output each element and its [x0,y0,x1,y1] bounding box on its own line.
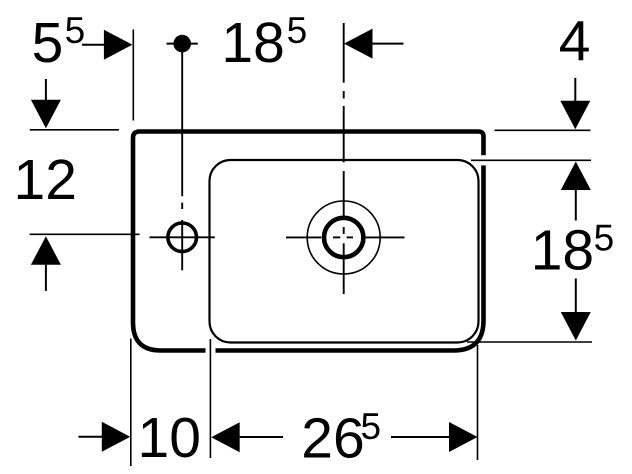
dimension 26.5 text [301,406,381,471]
svg-text:5: 5 [32,11,64,75]
dimension 5.5 line and arrow [82,30,132,60]
extension line at drain right (bottom) [477,345,479,460]
dimension 5.5 text [32,10,86,75]
dimension 18.5 down arrow (right) [561,279,591,341]
tap hole vertical centerline [181,52,183,270]
dimension 12 down arrow [31,79,61,128]
extension line basin left edge (bottom) [130,339,132,467]
white gap in bottom edge where extension line x=210 crosses [206,345,216,356]
drain outer circle [307,201,380,274]
tap hole horizontal crosshair [150,236,215,238]
dimension 18.5 start dot [167,35,198,53]
svg-text:4: 4 [559,10,591,74]
dimension 26.5 right arrow [391,422,478,452]
extension line basin left edge (top) [132,30,134,121]
svg-text:26: 26 [301,407,364,471]
svg-text:10: 10 [138,406,201,470]
svg-text:5: 5 [361,406,382,447]
dimension 4 arrow [560,78,590,129]
svg-text:5: 5 [287,10,308,51]
extension line rim top edge (right) [471,159,591,161]
dimension 10 arrow (outside left) [79,422,131,452]
drain horizontal centerline [286,236,405,238]
extension line rim left edge (bottom) [209,339,211,458]
dimension 26.5 left arrow [211,422,283,452]
white gap in right edge where rim extension line crosses [479,155,489,165]
drain inner circle [324,218,363,257]
extension line rim bottom edge (right) [467,341,592,343]
svg-text:18: 18 [531,218,594,282]
outer basin outline [133,132,484,351]
extension line basin top edge (right) [495,129,591,131]
dimension 18.5 up arrow (right) [561,162,591,221]
drain vertical centerline [343,23,345,294]
svg-text:5: 5 [594,218,615,259]
inner rim outline [210,160,479,343]
dimension 12 up arrow [31,236,61,291]
svg-text:12: 12 [14,148,77,212]
tap hole circle [168,223,197,252]
dimension 18.5 text (right) [531,218,614,283]
extension line tap hole centerline (left) [30,233,140,235]
extension line basin top edge (left) [30,129,119,131]
svg-text:18: 18 [221,11,284,75]
dimension 18.5 arrow (top) [344,29,404,59]
dimension 18.5 text (top) [221,10,307,75]
